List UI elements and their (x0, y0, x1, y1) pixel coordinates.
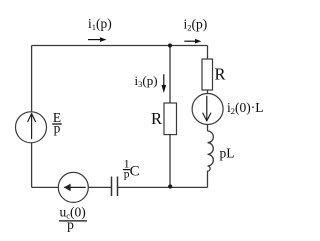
svg-text:i2(0)·L: i2(0)·L (227, 100, 264, 116)
svg-text:C: C (130, 164, 140, 180)
svg-text:p: p (67, 217, 74, 232)
svg-text:i3(p): i3(p) (135, 73, 158, 89)
svg-text:i2(p): i2(p) (184, 17, 208, 33)
svg-text:pL: pL (220, 146, 235, 161)
svg-text:p: p (54, 120, 61, 135)
svg-text:R: R (215, 65, 226, 84)
svg-text:R: R (151, 109, 162, 128)
svg-text:i1(p): i1(p) (88, 16, 112, 32)
